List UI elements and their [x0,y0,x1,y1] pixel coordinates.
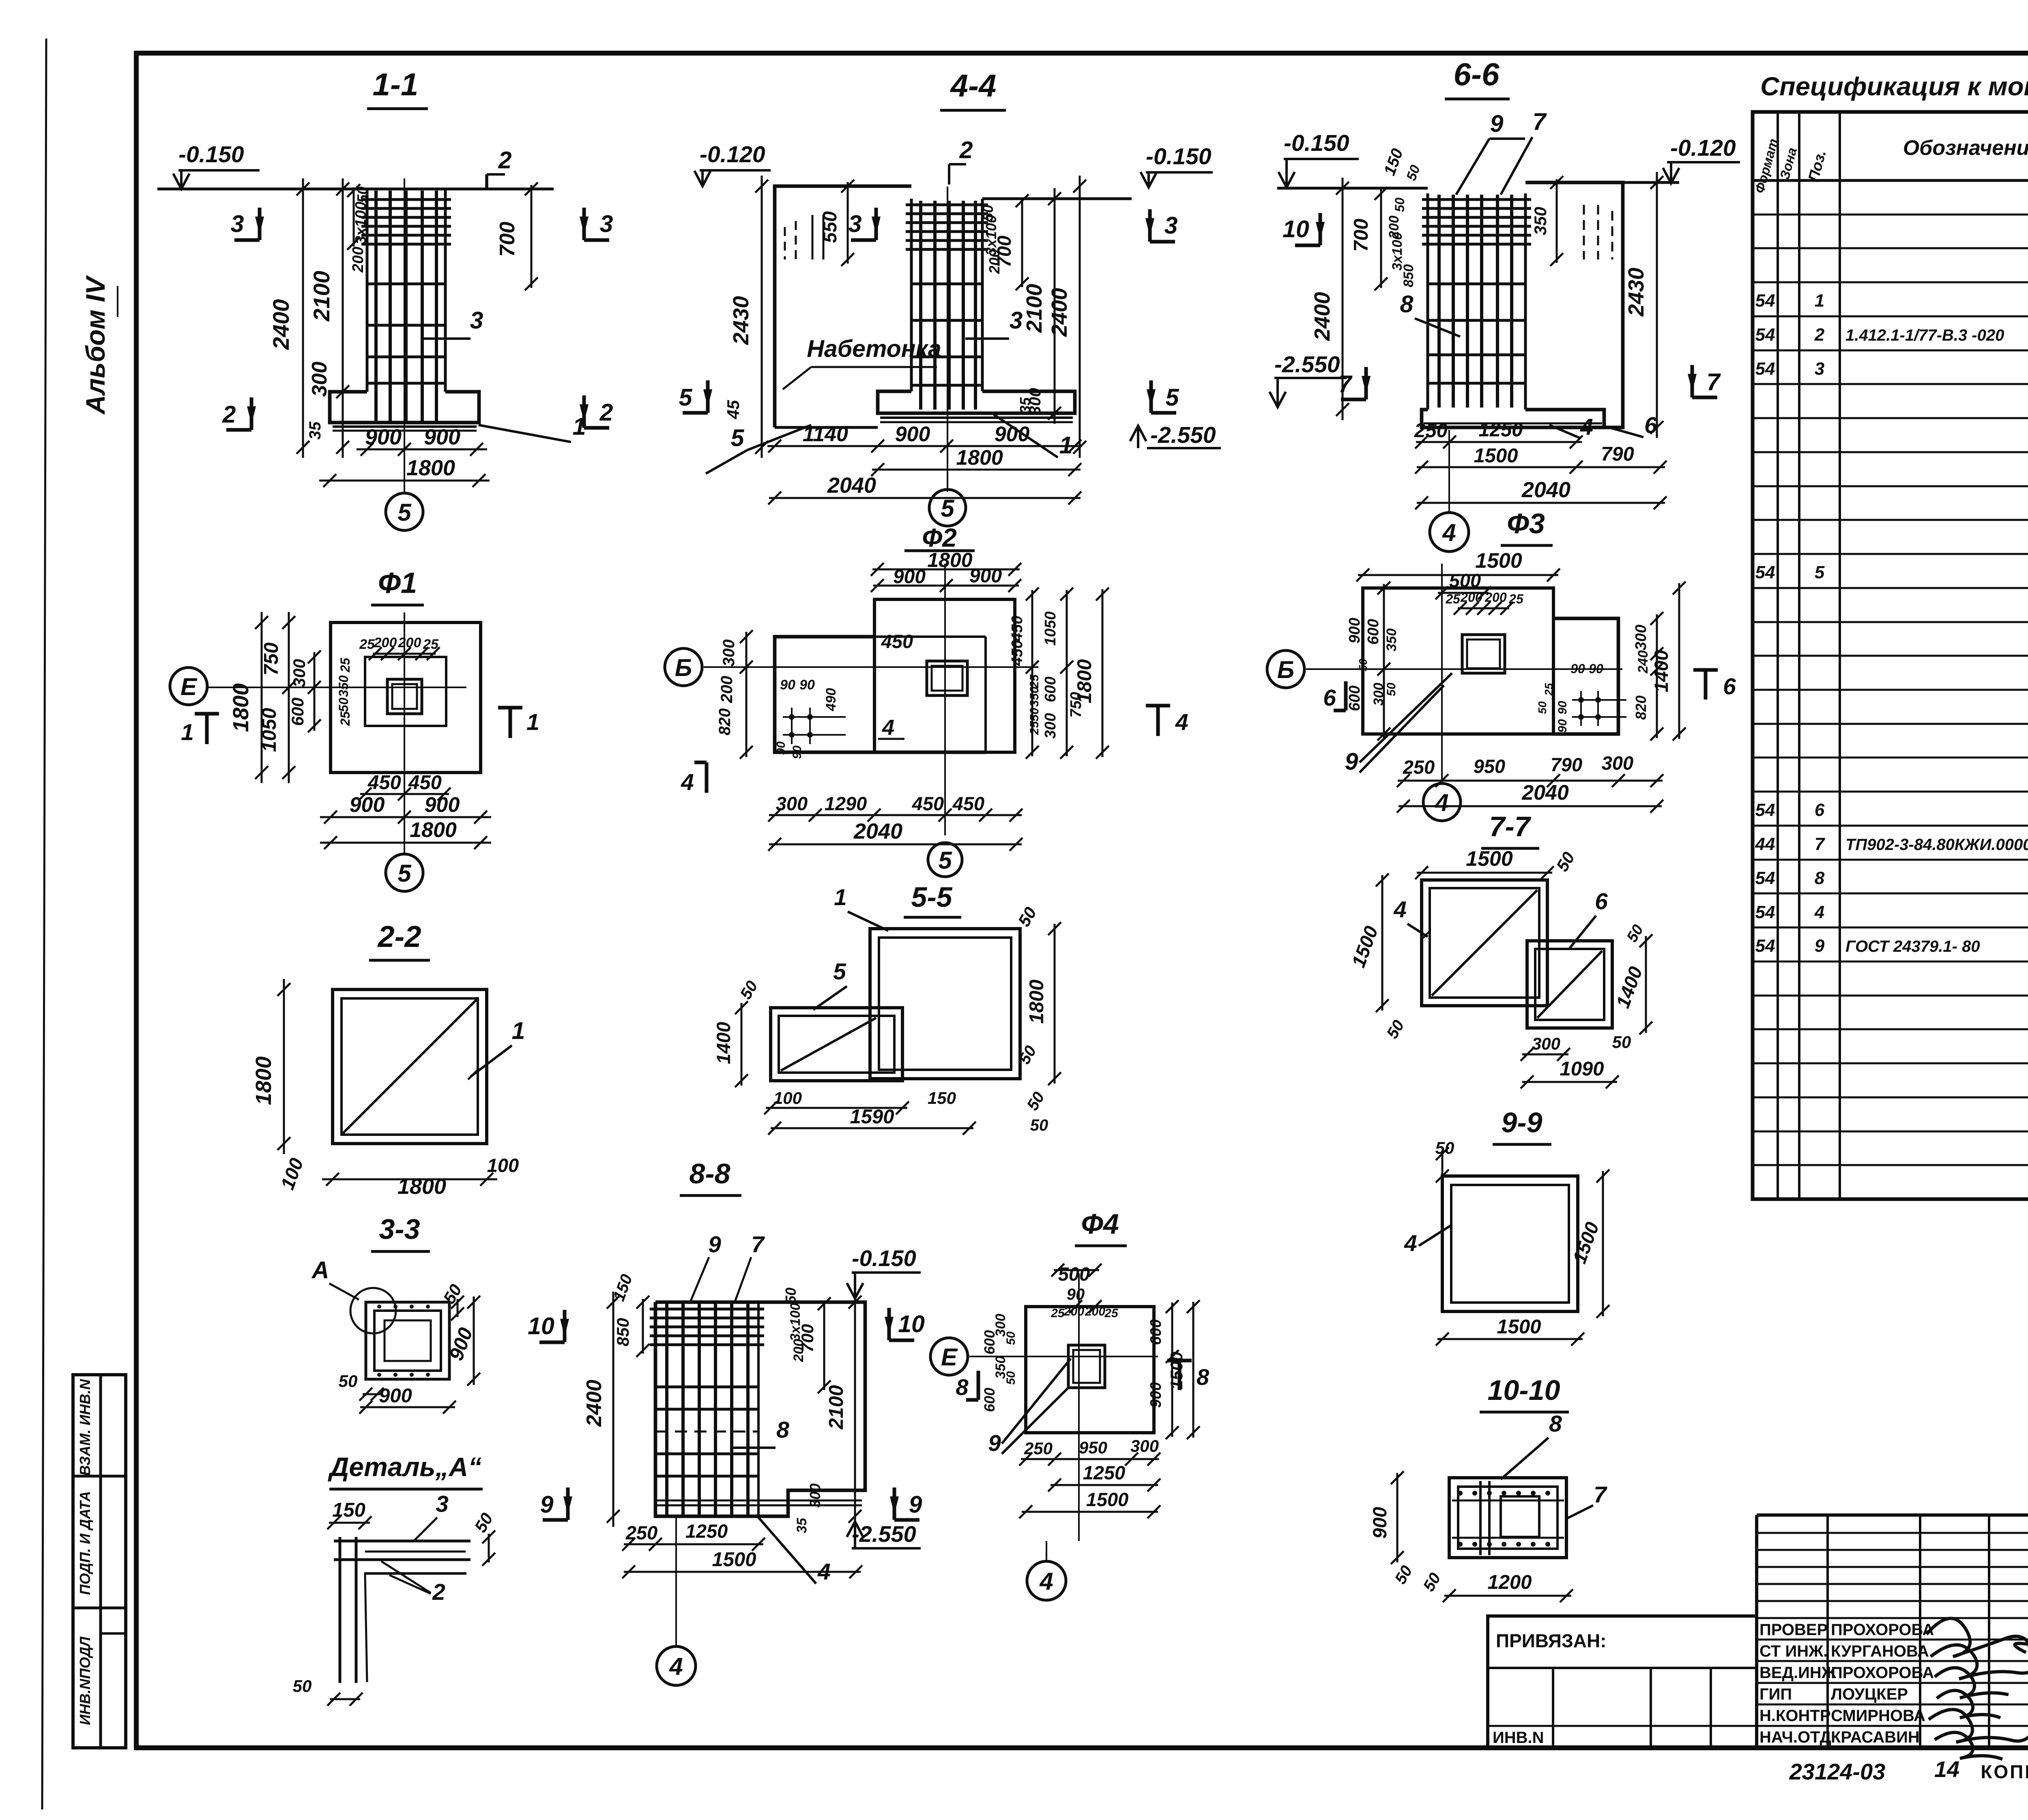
title block grid [1757,1515,2028,1748]
svg-text:1050: 1050 [1042,612,1059,646]
section 5-5 label 5 [813,959,847,1010]
section 2-2 diagonal [343,1000,477,1133]
svg-text:6: 6 [1815,800,1825,820]
plan F4 small top dims 25 200 200 25 [1051,1305,1119,1320]
plan F4 base circle 4 [1027,1541,1066,1600]
svg-text:240: 240 [1635,650,1651,674]
svg-text:5: 5 [731,425,745,451]
svg-text:1800: 1800 [229,683,253,732]
section 4-4 bottom dims 1140 900 900 [767,423,1082,453]
svg-text:1250: 1250 [685,1520,728,1542]
section 4-4 label 1 bottom right [994,414,1072,459]
section 4-4 elevation -0.150 right [1141,144,1213,187]
svg-text:2040: 2040 [1521,478,1570,502]
svg-text:25: 25 [1104,1307,1119,1320]
section 1-1 small dims 200 3x100 50 [347,184,371,273]
stamp label inv podl [77,1636,93,1725]
svg-text:50: 50 [1357,659,1369,672]
plan F3 big square [1363,588,1553,734]
svg-text:КОПИРОВАЛ: ЛОГИНОВА: КОПИРОВАЛ: ЛОГИНОВА [1981,1761,2028,1782]
svg-text:1500: 1500 [1475,549,1522,573]
svg-text:2400: 2400 [582,1380,606,1427]
section 4-4 rebar cage [906,201,988,410]
svg-text:-0.150: -0.150 [852,1245,916,1271]
section 6-6 bottom dims 250 1250 [1414,419,1583,449]
svg-text:7: 7 [1815,834,1826,854]
svg-text:450: 450 [1009,616,1026,642]
svg-text:9: 9 [540,1491,554,1518]
svg-text:4: 4 [1404,1230,1417,1256]
section 6-6 ground line left [1277,187,1428,190]
section 4-4 label 5 bottom left [706,425,811,474]
section 10-10 label 7 [1566,1482,1607,1519]
section 7-7 dim 50 topright [1552,849,1578,875]
svg-text:300: 300 [1602,752,1633,774]
plan F2 bottom dims 300 1290 450 450 [768,793,1023,822]
section 6-6 footing [1422,410,1604,427]
section 8-8 section mark 9 right [890,1487,922,1520]
section 8-8 elevation -2.550 [847,1521,921,1548]
section 7-7 top dim 1500 [1415,847,1554,879]
section 8-8 bottom dim 1500 [622,1549,862,1578]
svg-text:900: 900 [995,423,1030,446]
plan F2 right dims col1 [1009,588,1041,759]
plan F1 outer square [331,622,481,773]
section 1-1 section mark 3 right [580,208,613,240]
section 6-6 title [1445,56,1510,99]
section 6-6 section mark 7 right [1688,365,1721,397]
svg-text:50: 50 [1392,197,1407,212]
svg-text:5: 5 [397,860,412,887]
section 8-8 outline [655,1302,865,1516]
section 6-6 dim 150 top [1381,146,1423,183]
section 1-1 ground line [157,188,554,191]
section 5-5 label 1 [834,884,888,931]
plan F1 left dim 750 1050 [258,612,295,783]
section 3-3 detail circle A [311,1257,396,1333]
svg-text:23124-03: 23124-03 [1789,1759,1886,1784]
svg-text:820: 820 [716,708,734,736]
svg-text:90: 90 [1556,719,1569,733]
section 1-1 footing outline [330,392,479,431]
bottom copied by [1981,1761,2028,1782]
svg-text:900: 900 [425,793,460,817]
svg-text:8: 8 [776,1417,789,1443]
svg-text:300: 300 [1532,1034,1560,1053]
svg-text:ПРОХОРОВА: ПРОХОРОВА [1831,1621,1934,1639]
plan F3 label 9 [1345,673,1452,775]
svg-text:10: 10 [528,1313,554,1339]
section 8-8 dims left 150 850 2400 [582,1272,649,1527]
section 6-6 elevation -0.150 [1278,130,1359,187]
section 8-8 dim 2100 right [825,1296,861,1523]
section 4-4 ground line right [982,197,1132,200]
svg-text:-0.150: -0.150 [1284,130,1349,156]
section 6-6 labels 9 7 top [1456,108,1547,195]
svg-text:790: 790 [1551,754,1582,775]
svg-text:35: 35 [306,421,324,440]
svg-text:1500: 1500 [1497,1316,1541,1338]
section 1-1 section mark 2 right [580,395,613,428]
svg-text:6: 6 [1644,412,1657,438]
section 10-10 dims 50 50 [1392,1562,1444,1595]
plan F4 bottom dims 250 950 300 [1019,1436,1160,1466]
section 1-1 label 3 mid [422,307,483,339]
svg-text:3-3: 3-3 [379,1213,420,1245]
svg-text:54: 54 [1755,868,1775,888]
svg-text:250: 250 [625,1522,657,1543]
plan F1 left dim 300 600 [288,650,321,732]
svg-text:1800: 1800 [410,818,457,842]
section 1-1 dim 2400 [268,178,309,458]
svg-text:8: 8 [1197,1364,1209,1390]
plan F2 section mark 4 right [1146,706,1188,736]
section 8-8 section mark 10 right [885,1308,925,1340]
svg-text:2400: 2400 [1310,292,1334,341]
svg-text:3: 3 [1815,359,1824,379]
svg-text:9: 9 [1815,936,1825,956]
plan F1 base circle 5 [386,854,423,891]
svg-text:1250: 1250 [1083,1462,1126,1483]
section 3-3 dim 50 left bottom [339,1371,384,1401]
plan F2 axis circle B [665,648,702,686]
section 8-8 labels 9 7 top [690,1232,765,1304]
plan F3 section mark 6 right [1693,670,1736,700]
section 3-3 square with rebar ring [366,1302,449,1379]
svg-text:2040: 2040 [1521,781,1569,805]
section 4-4 bottom dim 1800 [871,446,1081,476]
svg-text:600: 600 [1346,685,1363,711]
svg-text:Б: Б [1277,656,1294,683]
svg-text:44: 44 [1755,834,1775,854]
svg-text:54: 54 [1755,291,1775,311]
svg-text:90: 90 [791,745,804,759]
svg-text:90: 90 [774,741,788,755]
section 1-1 elevation -0.150 [173,142,260,189]
section 6-6 nabetonka dashes [1584,205,1612,260]
svg-text:7: 7 [1594,1482,1607,1508]
svg-text:2: 2 [498,147,512,174]
svg-text:100: 100 [487,1155,519,1176]
svg-text:1: 1 [834,884,847,910]
svg-text:600: 600 [1042,676,1059,702]
section 6-6 dim 700 left [1350,187,1388,290]
svg-text:900: 900 [895,423,930,446]
plan F3 bottom dim 2040 [1397,781,1663,813]
svg-text:25: 25 [1051,1307,1065,1320]
svg-text:450: 450 [1009,640,1026,666]
section 7-7 label 6 [1570,889,1608,948]
svg-text:3: 3 [231,210,244,237]
detail A label 2 [381,1561,445,1605]
plan F1 bottom dim 1800 [320,818,491,849]
svg-text:ИНВ.NПОДЛ: ИНВ.NПОДЛ [77,1636,93,1725]
spec table header texts [1752,135,2028,195]
svg-text:700: 700 [1350,219,1372,252]
section 4-4 small dims right of cage [980,194,1029,290]
svg-text:4: 4 [1814,902,1824,922]
svg-text:600: 600 [1365,619,1382,644]
svg-text:50: 50 [782,1288,799,1304]
plan F4 title [1075,1208,1127,1246]
svg-text:500: 500 [1058,1263,1090,1285]
plan F2 column square [927,661,967,695]
svg-text:Спецификация к монолитным фу: Спецификация к монолитным фундаментам. [1760,72,2028,101]
svg-text:6-6: 6-6 [1454,56,1500,92]
svg-text:1400: 1400 [1650,650,1672,693]
section 1-1 dim 700 [496,182,538,290]
svg-text:90: 90 [1556,701,1569,715]
svg-text:54: 54 [1755,936,1775,956]
svg-text:8: 8 [1815,868,1825,888]
plan F4 top dim 500 [1051,1263,1102,1313]
plan F2 axes [704,564,1038,835]
side stamp box [73,1375,126,1748]
svg-text:2430: 2430 [729,296,753,345]
section 6-6 nabetonka block [1525,182,1623,427]
svg-text:350: 350 [1028,687,1041,707]
svg-text:50: 50 [1028,708,1041,721]
svg-text:ЛОУЦКЕР: ЛОУЦКЕР [1831,1685,1908,1703]
privyazan label [1496,1630,1607,1651]
svg-text:ПРОХОРОВА: ПРОХОРОВА [1831,1664,1934,1682]
svg-text:54: 54 [1755,902,1775,922]
section 10-10 rebar dots [1458,1491,1550,1547]
svg-text:Ф2: Ф2 [922,523,957,552]
svg-text:1800: 1800 [1074,659,1096,703]
svg-text:200: 200 [718,676,736,704]
svg-text:2400: 2400 [1047,288,1072,337]
plan F2 small dims 90 90 490 [774,677,839,759]
section 1-1 label 1 [479,413,586,442]
svg-text:1: 1 [512,1017,525,1044]
svg-text:-0.120: -0.120 [1670,135,1736,161]
svg-text:250: 250 [1403,756,1435,778]
svg-text:3: 3 [1010,307,1023,334]
svg-text:2430: 2430 [1624,268,1648,317]
svg-text:600: 600 [1147,1319,1164,1345]
svg-text:8: 8 [1549,1411,1562,1437]
section 9-9 title [1493,1107,1551,1144]
svg-text:150: 150 [928,1088,956,1107]
svg-text:54: 54 [1755,325,1775,345]
section 4-4 footing [878,391,1075,422]
spec row pos8 [1755,868,2028,888]
svg-text:5: 5 [397,499,412,526]
section 7-7 big diagonal [1432,890,1537,996]
stamp label vzam inv [77,1379,93,1476]
svg-text:550: 550 [819,211,840,243]
svg-text:1250: 1250 [1478,419,1523,441]
detail A dim 50 bottom [293,1676,363,1706]
plan F3 left dims cluster [1346,582,1399,740]
svg-text:4: 4 [882,715,894,740]
svg-text:4: 4 [1442,519,1456,546]
plan F1 column square [387,679,422,714]
section 7-7 dim 50 left bottom [1384,1017,1408,1042]
section 8-8 elevation -0.150 [847,1245,921,1298]
plan F3 top dim 1500 [1356,549,1560,582]
section 2-2 square [333,989,487,1144]
section 8-8 bottom dims 250 1250 [622,1520,765,1551]
svg-text:2: 2 [1814,325,1825,345]
svg-text:1800: 1800 [406,456,455,480]
svg-text:Обозначение: Обозначение [1903,136,2028,160]
svg-text:25: 25 [338,711,352,726]
section 3-3 title [371,1213,430,1251]
svg-text:7: 7 [1707,369,1721,395]
plan F2 big square [874,599,1015,752]
spec table grid [1753,112,2028,1199]
section 4-4 dim 2100 2400 [1022,176,1086,458]
svg-text:300: 300 [776,793,808,814]
section 6-6 bottom dim 2040 [1415,478,1667,509]
svg-text:9: 9 [988,1430,1001,1456]
svg-text:1: 1 [181,719,194,745]
svg-text:4: 4 [1435,789,1448,816]
svg-text:200: 200 [1484,590,1507,605]
section 4-4 label 3 mid [965,307,1023,339]
svg-text:950: 950 [1474,755,1505,777]
svg-text:-2.550: -2.550 [1150,422,1216,448]
section 3-3 dim 900 right [445,1296,480,1386]
svg-text:2: 2 [432,1579,445,1605]
svg-text:1-1: 1-1 [373,67,419,102]
svg-text:54: 54 [1755,359,1775,379]
plan F2 base circle 5 [928,843,962,877]
svg-text:1140: 1140 [803,423,848,446]
plan F4 section mark 8 left [956,1371,978,1400]
svg-text:2400: 2400 [268,299,294,350]
svg-text:1800: 1800 [251,1056,276,1105]
svg-text:2: 2 [959,137,973,163]
plan F3 title [1501,508,1553,545]
svg-text:3: 3 [436,1491,449,1517]
svg-text:50: 50 [1385,682,1398,696]
svg-text:14: 14 [1934,1756,1959,1782]
svg-text:ВЕД.ИНЖ: ВЕД.ИНЖ [1759,1664,1837,1682]
plan F2 bottom dim 2040 [768,819,1023,851]
svg-text:450: 450 [367,772,401,794]
plan F3 column square [1462,635,1505,673]
svg-text:ГИП: ГИП [1759,1685,1792,1703]
section 9-9 square [1442,1176,1578,1311]
section 2-2 title [369,920,430,960]
svg-text:300: 300 [807,1483,823,1508]
detail A label 3 [414,1491,449,1541]
plan F2 right dims col2 [1042,588,1085,759]
svg-text:350: 350 [1531,207,1550,235]
svg-text:7: 7 [1533,108,1547,135]
svg-text:700: 700 [496,222,519,257]
section 7-7 bottom dim 1090 [1521,1058,1619,1088]
section 7-7 title [1481,811,1539,848]
section 6-6 label 8 [1400,291,1460,337]
svg-text:25: 25 [1028,674,1041,689]
section 4-4 dim 45 left [724,400,743,419]
plan F3 axes [1306,564,1622,783]
section 4-4 dim 2430 left [729,176,768,458]
svg-text:300: 300 [1130,1436,1159,1455]
plan F1 small top dims 25 200 200 25 [359,635,440,660]
svg-text:-0.150: -0.150 [178,142,244,167]
svg-text:900: 900 [893,566,926,588]
svg-text:1050: 1050 [258,708,280,752]
plan F4 column square [1068,1345,1105,1388]
svg-text:5: 5 [1815,562,1825,582]
svg-text:900: 900 [969,565,1002,587]
svg-text:50: 50 [1612,1032,1631,1052]
spec row pos4 [1755,902,2028,922]
svg-text:4: 4 [1393,897,1407,923]
section 6-6 labels 4 6 bottom [1549,412,1657,440]
section 1-1 label 2 top [487,147,512,189]
svg-text:50: 50 [1004,1331,1018,1345]
title block project name [2027,1619,2028,1676]
svg-text:900: 900 [365,425,402,449]
svg-text:-2.550: -2.550 [1274,352,1340,378]
section 4-4 section mark 3 right [1145,209,1178,242]
svg-text:7: 7 [751,1232,765,1258]
title block signatures [1927,1618,2028,1759]
svg-text:200: 200 [1085,1305,1105,1318]
plan F3 bottom dims 250 950 790 300 [1397,752,1663,787]
svg-text:7: 7 [1338,371,1353,397]
svg-text:Е: Е [180,673,198,700]
svg-text:5-5: 5-5 [911,881,952,913]
svg-text:9: 9 [1490,110,1504,137]
section 1-1 dim 35 left [306,421,324,440]
svg-text:900: 900 [379,1385,412,1407]
svg-text:3х100: 3х100 [352,202,370,245]
svg-text:2040: 2040 [827,473,876,498]
svg-text:1290: 1290 [825,793,867,814]
svg-text:6: 6 [1595,889,1608,914]
section 6-6 bottom dims 1500 790 [1415,443,1667,474]
svg-text:450: 450 [408,772,442,794]
section 3-3 dim 50 top [439,1281,465,1320]
svg-text:СТ ИНЖ.: СТ ИНЖ. [1759,1642,1828,1660]
svg-text:3: 3 [470,307,483,334]
svg-text:ПРИВЯЗАН:: ПРИВЯЗАН: [1496,1630,1607,1651]
plan F1 bottom dims 450 450 [359,772,451,801]
svg-text:25: 25 [359,637,375,652]
svg-text:Ф1: Ф1 [378,567,417,599]
svg-text:2: 2 [222,401,236,428]
svg-text:1090: 1090 [1560,1058,1604,1080]
section 6-6 dim 2400 left [1310,178,1349,420]
plan F4 bottom dim 1500 [1019,1489,1160,1518]
svg-text:50: 50 [1030,1116,1048,1134]
svg-text:9: 9 [909,1491,922,1518]
svg-text:900: 900 [1346,618,1363,643]
svg-text:1800: 1800 [927,549,972,571]
section 10-10 title [1480,1374,1569,1412]
svg-text:900: 900 [424,425,460,449]
svg-text:5: 5 [833,959,846,985]
section 2-2 bottom dims [276,1155,519,1199]
svg-text:250: 250 [1414,420,1448,442]
plan F4 left small dims [981,1314,1018,1412]
svg-text:ВЗАМ. ИНВ.N: ВЗАМ. ИНВ.N [77,1379,93,1476]
section 4-4 base circle 5 [929,489,966,526]
section 7-7 dim 1500 left [1347,874,1389,1012]
section 9-9 label 4 [1404,1225,1452,1256]
svg-text:10-10: 10-10 [1487,1374,1560,1406]
svg-text:5: 5 [941,495,955,522]
section 4-4 section mark 5 left [679,380,712,413]
section 7-7 small diagonal [1537,951,1602,1018]
